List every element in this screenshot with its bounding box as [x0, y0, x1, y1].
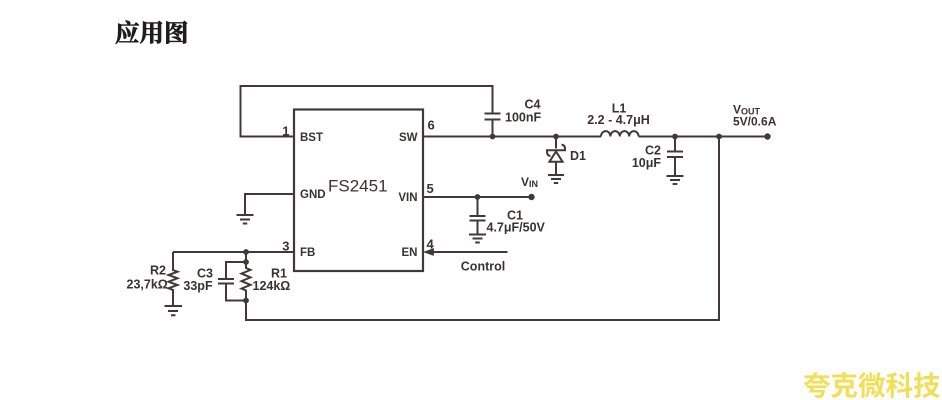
svg-text:10μF: 10μF — [632, 156, 662, 170]
diode D1 (schottky) — [555, 137, 557, 149]
svg-text:FB: FB — [300, 247, 315, 259]
svg-text:5: 5 — [427, 181, 434, 196]
svg-text:2.2 - 4.7μH: 2.2 - 4.7μH — [587, 113, 650, 127]
svg-text:BST: BST — [300, 132, 323, 144]
wire inductor to VOUT terminal — [639, 136, 767, 138]
resistor R1 — [242, 262, 251, 301]
ground below D1 — [548, 175, 564, 183]
node junction SW/C4 — [490, 134, 496, 140]
node junction VIN/C1 — [475, 194, 481, 200]
VOUT terminal dot — [764, 133, 770, 139]
node junction R1/C3 bottom — [243, 298, 249, 304]
inductor L1 — [601, 131, 639, 136]
ground below C1 — [469, 235, 486, 243]
ground below R2 — [165, 306, 183, 315]
svg-text:5V/0.6A: 5V/0.6A — [733, 115, 777, 129]
svg-text:4.7μF/50V: 4.7μF/50V — [487, 221, 546, 235]
capacitor C2 — [667, 137, 683, 176]
svg-text:100nF: 100nF — [505, 111, 541, 125]
svg-text:124kΩ: 124kΩ — [253, 279, 291, 293]
svg-text:EN: EN — [402, 247, 418, 259]
capacitor C1 — [470, 197, 486, 234]
VIN terminal dot — [528, 194, 534, 200]
wire FB junction down to R1/C3 top node — [245, 252, 247, 262]
node junction SW/D1 — [553, 134, 559, 140]
EN input arrowhead — [423, 248, 434, 256]
svg-text:33pF: 33pF — [183, 279, 213, 293]
svg-text:VIN: VIN — [521, 175, 538, 189]
svg-text:6: 6 — [428, 118, 435, 133]
wire SW node: pin 6 to inductor — [423, 136, 601, 138]
svg-text:FS2451: FS2451 — [328, 177, 388, 196]
capacitor C3 — [218, 262, 246, 301]
capacitor C4 — [485, 114, 501, 137]
wire Control to EN pin — [431, 251, 508, 253]
node junction VOUT/feedback — [716, 134, 722, 140]
svg-text:VIN: VIN — [398, 192, 417, 204]
svg-text:Control: Control — [461, 260, 505, 274]
wire BST bootstrap loop: BST pin up and over to C4 top — [241, 86, 493, 137]
watermark 夸克微科技 — [804, 372, 940, 398]
ground at GND pin — [237, 215, 254, 224]
svg-text:C4: C4 — [525, 98, 541, 112]
wire VIN: pin 5 to VIN terminal — [423, 196, 532, 198]
svg-text:GND: GND — [300, 189, 326, 201]
svg-text:23,7kΩ: 23,7kΩ — [127, 278, 168, 292]
svg-text:R2: R2 — [150, 264, 166, 278]
node junction L1/C2 — [672, 134, 678, 140]
wire GND pin to ground — [245, 194, 294, 215]
resistor R2 — [169, 252, 178, 306]
title 应用图 — [116, 21, 187, 44]
op-amp U1 FS2451 IC body — [294, 110, 423, 272]
node junction FB/R1C3 — [243, 249, 249, 255]
svg-text:D1: D1 — [570, 149, 586, 163]
wire FB node — [173, 251, 294, 253]
ground below C2 — [667, 176, 684, 184]
wire feedback bottom run to VOUT — [246, 137, 719, 321]
svg-text:SW: SW — [399, 132, 418, 144]
